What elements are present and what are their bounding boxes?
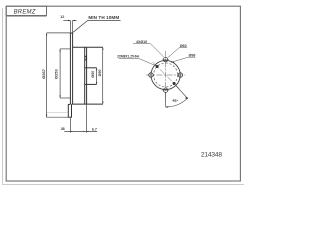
arc arrow left [166,106,169,108]
arrow 253 top [59,49,60,52]
diagonal centerline [153,62,179,88]
min-th leader [72,20,120,32]
horizontal centerline [146,74,185,76]
svg-text:12: 12 [60,15,64,19]
arrow hat dim bottom [102,102,103,105]
hub lip top stub [68,103,70,105]
flange hatch dots [85,56,87,58]
dim 267 ext bottom [47,116,68,118]
faint outer page edge left [2,8,4,184]
hole tick top [162,59,169,61]
hub outer circle [151,60,180,89]
arrow bore dim bottom [96,82,97,84]
label O60 leader [168,48,179,58]
bore bottom edge [85,83,97,85]
dim 12 ext right [72,21,74,34]
svg-text:38: 38 [61,127,65,131]
vertical centerline [165,51,167,103]
flange face outer [84,47,86,104]
svg-text:214348: 214348 [201,152,223,159]
svg-text:Ø60: Ø60 [91,71,95,78]
arrow 267 bottom [46,115,47,118]
bottom dim line [64,130,97,132]
bolt hole right [178,73,182,77]
drawing frame [6,6,240,181]
label M8 leader [138,58,156,66]
svg-text:2XM8X1.25-6H: 2XM8X1.25-6H [117,54,139,58]
disc band right edge [72,33,74,104]
svg-text:Ø60: Ø60 [180,44,187,48]
band top closure [70,32,73,34]
dim 12 ext left [69,21,71,33]
label O98 arrowhead [171,61,174,63]
hole tick left [150,72,152,79]
dim 267 ext top [47,32,73,34]
svg-text:4XØ10: 4XØ10 [136,40,147,44]
hat top wall [73,46,103,48]
arrow 12 left [68,20,70,21]
label 4xO10 leader [150,44,163,57]
M8 hole NW filled [156,65,159,68]
bottom ext line band [69,118,71,133]
svg-text:Ø90: Ø90 [98,69,102,76]
hub lip right edge [71,104,73,117]
hub lip left edge [67,104,69,117]
label O60 underline [179,47,187,49]
M8 hole SE filled [173,82,176,85]
label M8 underline [119,57,139,59]
flange face inner [86,47,88,104]
dim 12 line left tail [63,20,70,22]
bolt hole top [163,57,167,61]
svg-text:MIN TH 10MM: MIN TH 10MM [88,15,119,20]
disc band left edge [69,33,71,104]
dim 253 ext top [60,48,70,50]
label O98 underline [188,56,195,58]
faint outer page edge bottom [2,183,244,185]
bolt hole bottom [163,88,167,92]
arrow 267 top [46,33,47,36]
hub lip bottom closure [68,116,72,118]
45deg vertical leg [165,92,167,107]
bore dia dim line [96,68,98,85]
arrow 38 left [70,131,72,132]
bottom ext line flange [86,105,88,133]
arrow 6.7 right [87,131,89,132]
arrow hat dim top [102,47,103,50]
svg-text:Ø98: Ø98 [189,54,196,58]
svg-text:BREMZ: BREMZ [14,10,36,16]
45deg arc [166,98,189,107]
dim 267 line [46,33,48,117]
faint extension line above lip [47,111,68,113]
bolt circle dashed [154,63,178,87]
title box [6,6,46,15]
45deg diagonal leg [175,85,187,98]
svg-text:Ø253: Ø253 [53,69,58,80]
arrow 38 right [83,131,85,132]
label O98 leader [171,57,188,62]
arc arrow right [185,97,188,99]
dim 12 line right tail [73,20,77,22]
arrow bore dim top [96,68,97,70]
dim 253 ext bottom [60,97,70,99]
svg-text:Ø267: Ø267 [41,68,46,79]
hat bottom wall [72,103,103,105]
dim 253 line [59,49,61,98]
bore top edge [85,67,97,69]
hole tick right [179,72,181,79]
arrow 12 right [73,20,75,21]
arrow 253 bottom [59,95,60,98]
hole tick bottom [162,89,169,91]
svg-text:6.7: 6.7 [92,128,97,132]
label 4xO10 underline [133,43,150,45]
bolt hole left [149,73,153,77]
hat dia dim line [102,47,104,104]
